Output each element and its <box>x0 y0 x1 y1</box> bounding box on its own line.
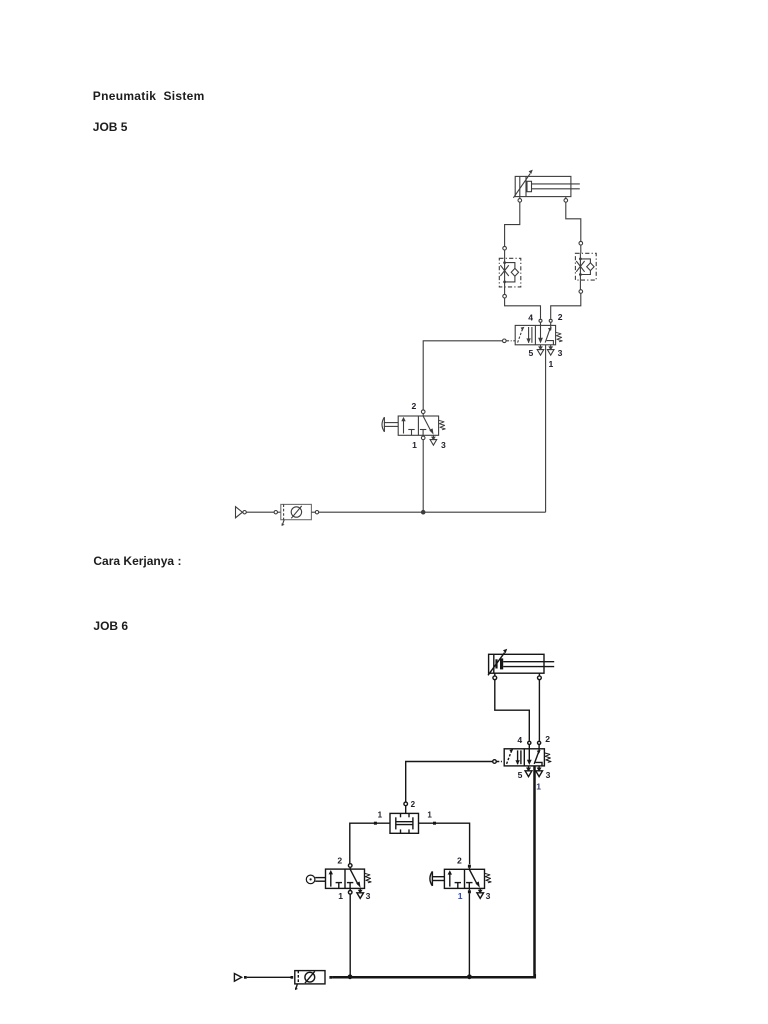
wire cylinder A1 right port to flow control valve FCV2 <box>566 202 581 241</box>
two-pressure valve V6 (AND) <box>390 802 419 833</box>
compressed air source symbol (JOB 6) <box>234 974 246 982</box>
svg-text:3: 3 <box>486 891 491 901</box>
pilot dash-dot link into valve V5 <box>496 761 504 763</box>
wire valve V3 port 1 down to supply line <box>349 894 351 976</box>
wire flow control valve FCV2 to valve V2 port 2 <box>551 293 581 319</box>
exhaust port 3 of valve V4 <box>477 888 484 898</box>
push-button actuator of valve V4 <box>430 871 445 886</box>
svg-text:2: 2 <box>545 734 550 744</box>
svg-text:1: 1 <box>338 891 343 901</box>
svg-text:1: 1 <box>378 810 383 819</box>
exhaust silencer port 5 of valve V2 <box>537 345 544 355</box>
port 1 circle of valve V3 <box>348 888 352 894</box>
air service unit Z1 <box>274 504 319 526</box>
port labels 4 2 5 3 1 of valve V5 <box>517 734 550 791</box>
cylinder A2 (double-acting, adjustable cushioning) <box>488 649 554 680</box>
heading: JOB 5 <box>93 121 128 133</box>
air service unit Z2 <box>291 971 333 991</box>
exhaust port 3 of valve V1 <box>430 435 437 445</box>
svg-text:3: 3 <box>558 348 563 358</box>
return spring of valve V1 <box>439 420 445 430</box>
heavy wire valve V5 port 1 down to supply line <box>533 766 536 976</box>
wire air source to service unit Z1 <box>246 511 274 513</box>
wire flow control valve FCV1 to valve V2 port 4 <box>505 298 541 319</box>
return spring of valve V2 <box>556 332 562 342</box>
compressed air source symbol <box>236 507 247 518</box>
wire valve V6 left port 1 to valve V3 port 2 <box>350 823 390 863</box>
cylinder A1 (double-acting, adjustable cushioning) <box>513 170 579 203</box>
svg-text:1: 1 <box>427 811 432 820</box>
push-button actuator of valve V1 <box>382 417 398 432</box>
svg-text:4: 4 <box>517 735 522 745</box>
wire valve V4 port 1 down to supply line <box>468 893 470 976</box>
port labels 1 2 1 of valve V6 <box>378 800 433 820</box>
junction on supply line below valve V4 <box>467 974 472 979</box>
wire cylinder A1 left port to flow control valve FCV1 <box>505 202 520 246</box>
3/2-way push-button valve V1 <box>398 410 438 435</box>
heavy supply line wire from service unit Z2 to valve V5 port 1 <box>332 974 535 977</box>
return spring of valve V5 <box>545 753 551 763</box>
exhaust silencer port 3 of valve V2 <box>547 345 554 355</box>
heading: document title <box>93 90 205 102</box>
svg-text:3: 3 <box>441 440 446 450</box>
svg-text:4: 4 <box>528 312 533 322</box>
svg-text:3: 3 <box>546 770 551 780</box>
svg-text:2: 2 <box>412 401 417 411</box>
exhaust silencer port 3 of valve V5 <box>536 766 543 777</box>
3/2-way push-button valve V4 <box>444 865 484 889</box>
wire valve V2 port 1 down to supply line <box>545 345 547 512</box>
svg-text:1: 1 <box>412 440 417 450</box>
svg-text:2: 2 <box>457 856 462 866</box>
svg-text:2: 2 <box>558 312 563 322</box>
wire cylinder A2 left port to valve V5 port 4 <box>495 680 530 741</box>
svg-text:1: 1 <box>458 891 463 901</box>
svg-text:2: 2 <box>337 856 342 866</box>
svg-text:3: 3 <box>366 891 371 901</box>
svg-text:1: 1 <box>549 359 554 369</box>
knob actuator of valve V3 <box>306 875 325 884</box>
pilot port circle of valve V2 <box>503 339 507 343</box>
port 1 circle of valve V1 <box>421 435 425 439</box>
port 1 dot of valve V4 <box>468 888 471 893</box>
pilot port circle of valve V5 <box>493 760 497 764</box>
supply line wire from service unit Z1 to valve V2 port 1 <box>319 511 546 513</box>
one-way flow control valve FCV2 <box>575 241 596 293</box>
5/2-way pilot valve V2 <box>515 319 555 345</box>
heading: JOB 6 <box>93 620 128 632</box>
wire valve V6 right port 1 to valve V4 port 2 <box>419 823 470 864</box>
svg-text:5: 5 <box>529 348 534 358</box>
wire valve V1 port 1 down to supply line <box>422 440 424 513</box>
wire valve V5 pilot to two-pressure valve V6 port 2 <box>406 762 493 803</box>
wire cylinder A2 right port to valve V5 port 2 <box>538 680 540 741</box>
3/2-way button valve V3 <box>326 864 365 889</box>
return spring of valve V3 <box>365 873 371 883</box>
return spring of valve V4 <box>485 873 491 883</box>
connection dot at valve V6 right port <box>433 822 436 825</box>
heading: Cara Kerjanya : <box>93 555 181 567</box>
connection dot at valve V6 left port <box>374 822 377 825</box>
svg-text:1: 1 <box>536 781 541 791</box>
5/2-way pilot valve V5 <box>504 741 544 766</box>
svg-text:2: 2 <box>411 800 416 809</box>
port labels 2 1 3 of valve V1 <box>412 401 447 450</box>
junction on supply line below valve V1 <box>421 510 426 515</box>
port labels 4 2 5 3 1 of valve V2 <box>528 312 563 369</box>
pilot dash-dot link into valve V2 <box>506 340 515 342</box>
junction on supply line below valve V3 <box>348 974 353 979</box>
wire air source to service unit Z2 <box>247 976 291 978</box>
one-way flow control valve FCV1 <box>499 246 521 298</box>
wire valve V1 port 2 to pilot of valve V2 <box>423 341 502 410</box>
port labels 2 1 3 of valve V4 <box>457 856 491 901</box>
exhaust port 3 of valve V3 <box>357 888 364 898</box>
port labels 2 1 3 of valve V3 <box>337 856 370 901</box>
svg-text:5: 5 <box>518 770 523 780</box>
exhaust silencer port 5 of valve V5 <box>525 766 532 777</box>
